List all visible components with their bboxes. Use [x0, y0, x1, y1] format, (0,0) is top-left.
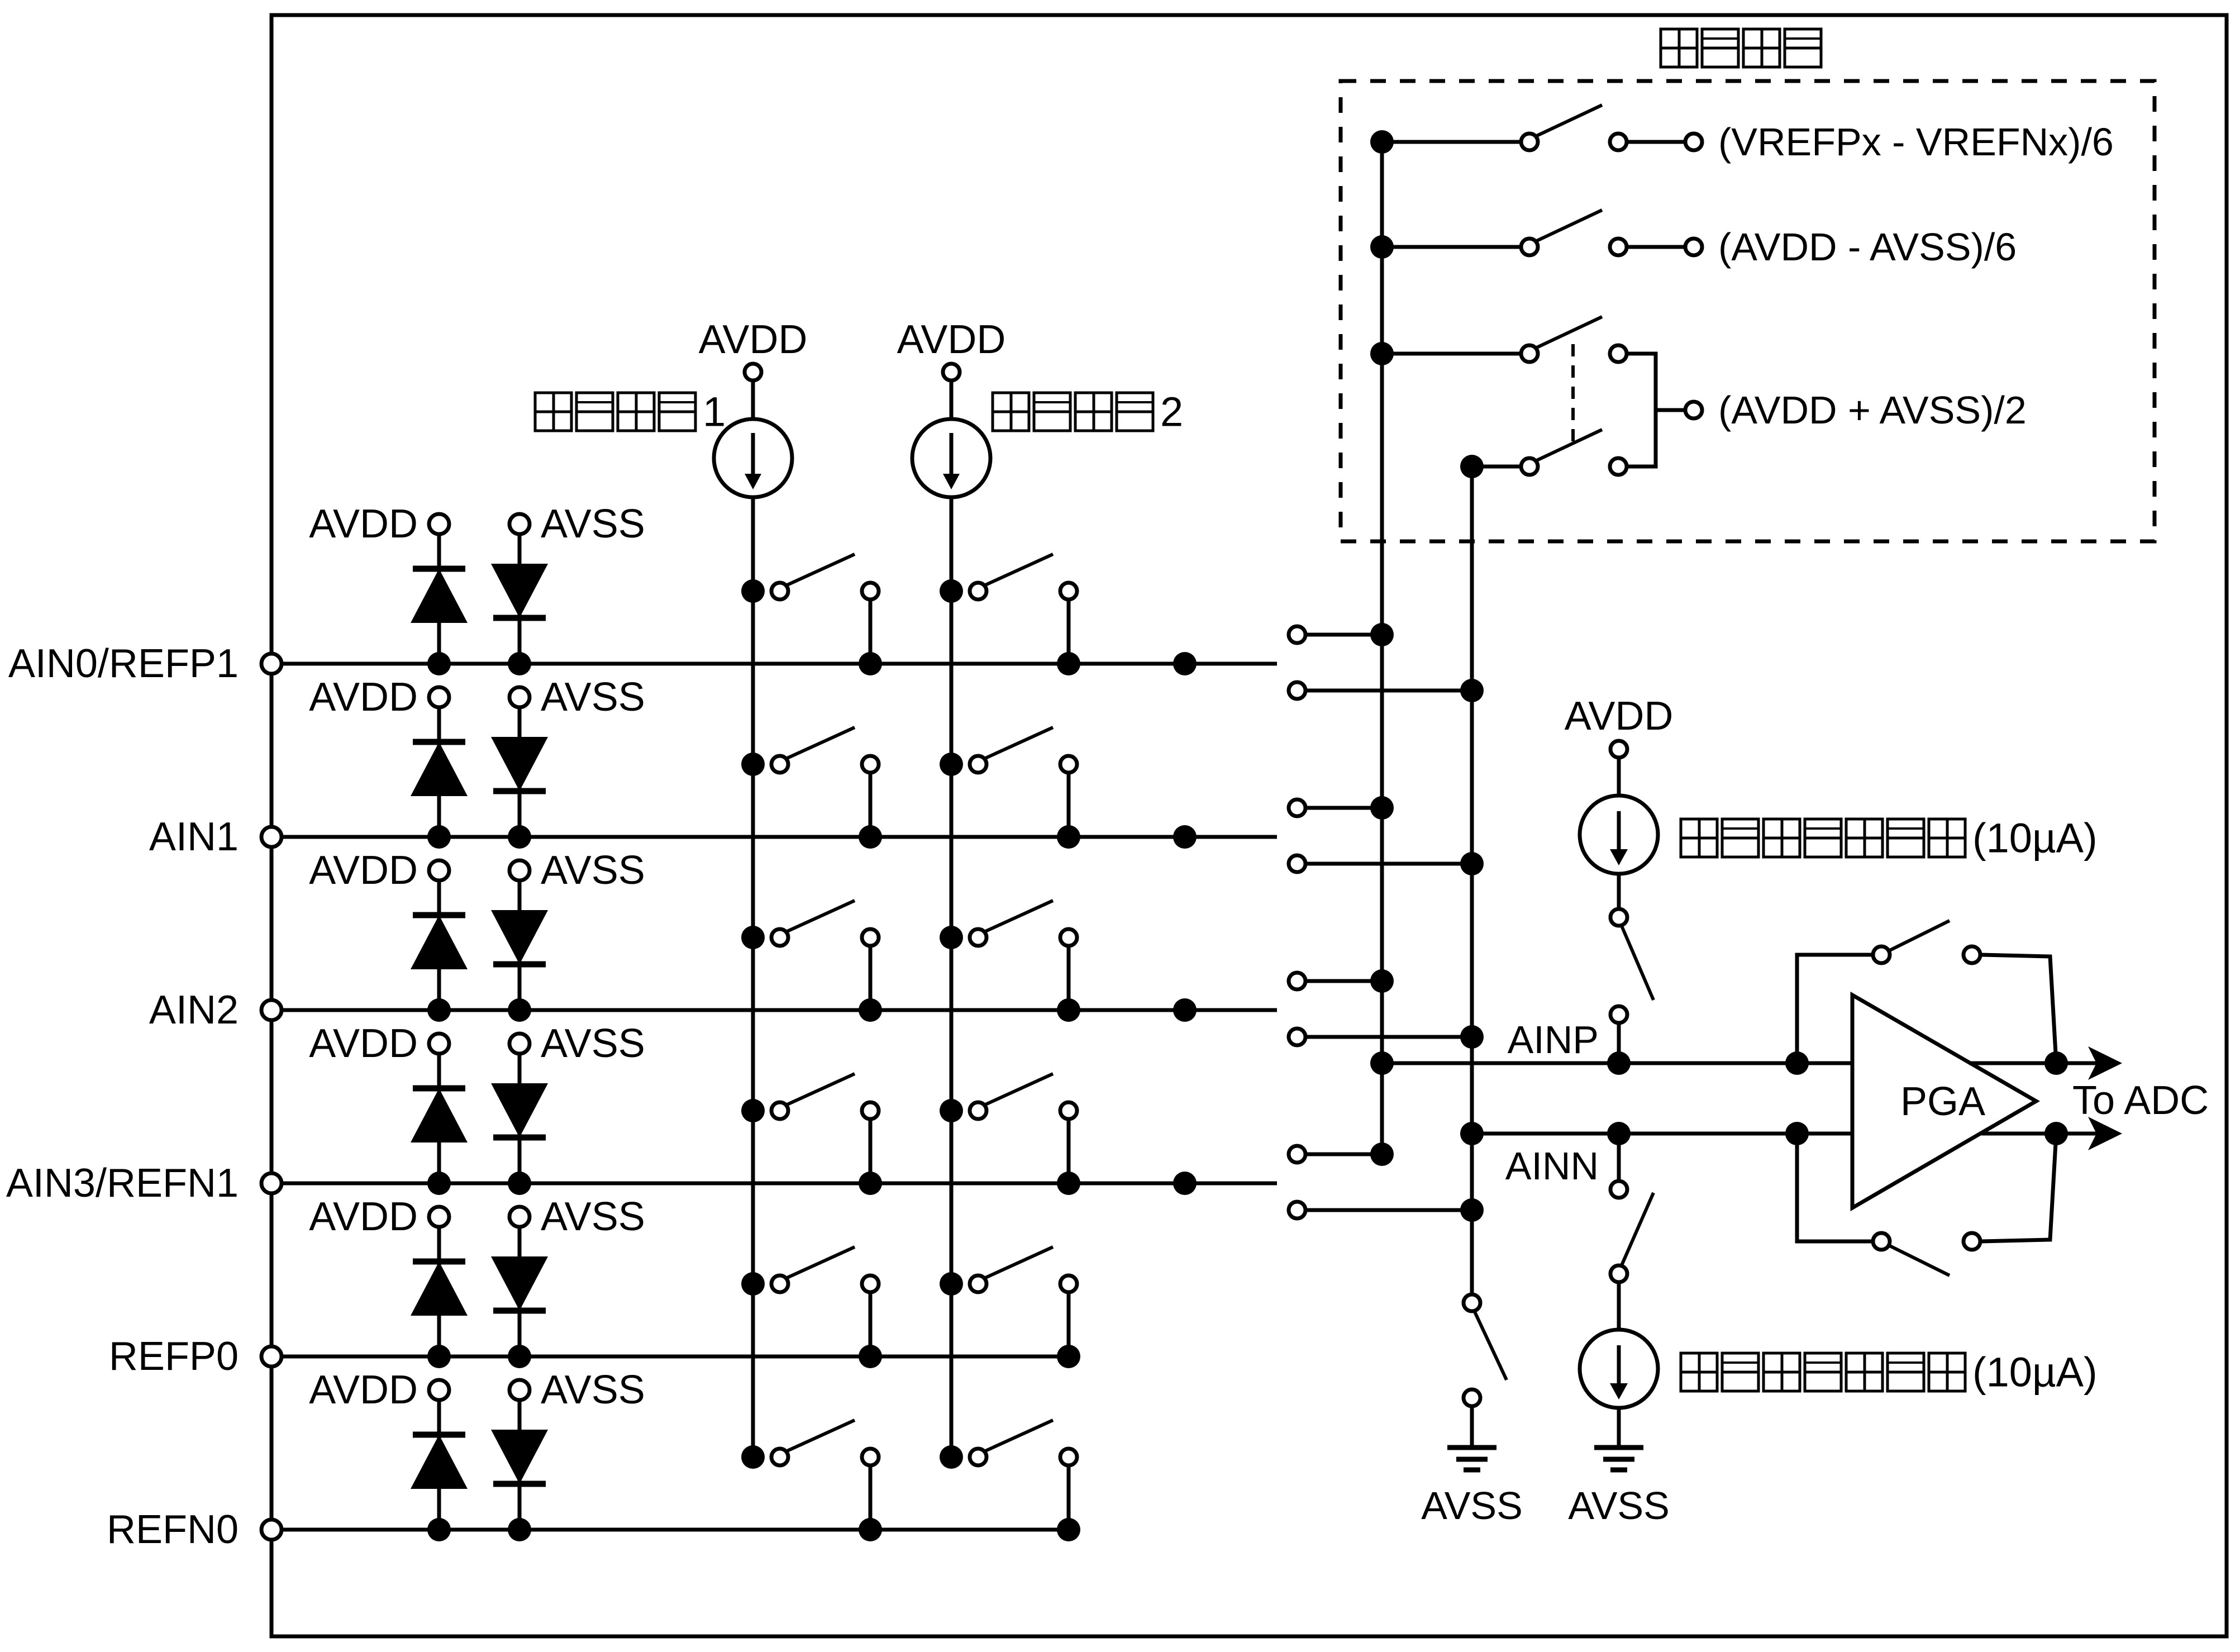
svg-text:(AVDD - AVSS)/6: (AVDD - AVSS)/6	[1718, 225, 2017, 269]
terminal AVDD (ESD AIN2)	[309, 848, 449, 893]
system monitor box (系统监测)	[1341, 81, 2155, 541]
node AIN0/REFP1/AVDD-diode junction	[427, 652, 451, 675]
switch AIN1 to AINP bus	[1289, 796, 1394, 820]
node AIN0/REFP1/AVSS-diode junction	[508, 652, 531, 675]
terminal AVDD (ESD REFP0)	[309, 1194, 449, 1239]
node REFP0/AVDD-diode junction	[427, 1345, 451, 1368]
wire IDAC1 switch drop to REFN0	[859, 1465, 882, 1541]
node AIN3/REFN1/AVSS-diode junction	[508, 1172, 531, 1195]
wire AIN3/REFN1 row	[271, 1182, 1277, 1186]
svg-text:AVDD: AVDD	[309, 502, 418, 546]
svg-text:AVDD: AVDD	[309, 675, 418, 720]
current source IDAC1	[714, 380, 792, 497]
svg-text:PGA: PGA	[1900, 1079, 1985, 1124]
ground AVSS (right)	[1568, 1448, 1670, 1527]
wire REFP0 row	[271, 1355, 1069, 1359]
current source sensor bias 2 (10uA)	[1580, 1282, 1658, 1448]
svg-text:AVDD: AVDD	[699, 317, 808, 362]
wire REFN0 row	[271, 1528, 1069, 1532]
svg-text:1: 1	[703, 389, 726, 435]
terminal AVSS (ESD AIN1)	[509, 675, 645, 720]
wire monitor (AVDD+AVSS)/2 join	[1626, 354, 1685, 466]
terminal AVDD (ESD AIN3/REFN1)	[309, 1021, 449, 1066]
ESD diode REFN0 to AVDD	[411, 1400, 468, 1530]
terminal AVDD (ESD AIN0/REFP1)	[309, 502, 449, 546]
wire IDAC2 switch drop to AIN0/REFP1	[1057, 599, 1080, 675]
ESD diode AIN3/REFN1 to AVSS	[491, 1054, 548, 1183]
wire AINN	[1460, 1122, 1852, 1145]
switch IDAC1 to AIN1	[741, 727, 879, 776]
terminal AVSS (ESD REFP0)	[509, 1194, 645, 1239]
label To ADC	[2072, 1078, 2209, 1123]
wire IDAC2 column	[950, 497, 954, 1457]
switch AIN2 to AINP bus	[1289, 969, 1394, 993]
switch IDAC1 to REFN0	[741, 1420, 879, 1469]
switch IDAC2 to AIN3/REFN1	[940, 1074, 1077, 1122]
switch IDAC1 to AIN2	[741, 901, 879, 949]
switch AIN3/REFN1 to AINP bus	[1289, 1142, 1394, 1166]
terminal AVSS (ESD AIN3/REFN1)	[509, 1021, 645, 1066]
label 传感器偏置电流 (10µA) upper	[1681, 815, 2098, 861]
ESD diode AIN0/REFP1 to AVDD	[411, 534, 468, 664]
terminal AVDD (IDAC1)	[699, 317, 808, 380]
wire IDAC2 switch drop to AIN3/REFN1	[1057, 1119, 1080, 1195]
switch bias 2 from AINN	[1607, 1122, 1653, 1282]
terminal (AVDD + AVSS)/2	[1685, 388, 2027, 432]
switch AIN0/REFP1 to AINP bus	[1289, 623, 1394, 646]
terminal AVDD (bias 1)	[1565, 694, 1674, 758]
ESD diode AIN2 to AVDD	[411, 880, 468, 1010]
switch AIN3/REFN1 to AINN bus	[1289, 1198, 1484, 1222]
node REFP0/AVSS-diode junction	[508, 1345, 531, 1368]
svg-text:2: 2	[1160, 389, 1183, 435]
ESD diode AIN1 to AVDD	[411, 707, 468, 837]
wire IDAC1 switch drop to REFP0	[859, 1292, 882, 1368]
wire IDAC2 switch drop to REFN0	[1057, 1465, 1080, 1541]
ESD diode REFP0 to AVSS	[491, 1227, 548, 1356]
svg-text:AIN2: AIN2	[149, 988, 239, 1032]
pin AIN3/REFN1	[6, 1161, 282, 1206]
terminal AVDD (ESD AIN1)	[309, 675, 449, 720]
current source IDAC2	[912, 380, 990, 497]
wire AINN bus (vertical)	[1470, 466, 1474, 1294]
switch chopper bottom	[1785, 1122, 2068, 1275]
terminal AVSS (ESD REFN0)	[509, 1368, 645, 1412]
wire AIN1 row	[271, 835, 1277, 839]
terminal AVSS (ESD AIN2)	[509, 848, 645, 893]
terminal AVSS (ESD AIN0/REFP1)	[509, 502, 645, 546]
node AIN1/AVDD-diode junction	[427, 825, 451, 849]
wire IDAC2 switch drop to REFP0	[1057, 1292, 1080, 1368]
svg-text:(VREFPx - VREFNx)/6: (VREFPx - VREFNx)/6	[1718, 120, 2114, 164]
wire IDAC1 column	[751, 497, 755, 1457]
node AIN2 mux pole	[1173, 998, 1197, 1022]
terminal (VREFPx - VREFNx)/6	[1626, 120, 2114, 164]
switch system monitor row 3	[1370, 317, 1627, 365]
svg-text:AIN1: AIN1	[149, 815, 239, 859]
gang line (dashed) monitor mid-supply switches	[1571, 344, 1575, 447]
svg-text:REFP0: REFP0	[109, 1334, 239, 1379]
terminal AVDD (IDAC2)	[897, 317, 1006, 380]
svg-text:AVDD: AVDD	[309, 1194, 418, 1239]
svg-text:AVSS: AVSS	[541, 1021, 645, 1066]
wire IDAC1 switch drop to AIN2	[859, 946, 882, 1022]
svg-text:(10µA): (10µA)	[1972, 815, 2098, 861]
switch IDAC2 to REFP0	[940, 1247, 1077, 1296]
ESD diode REFP0 to AVDD	[411, 1227, 468, 1356]
svg-text:AIN0/REFP1: AIN0/REFP1	[8, 641, 239, 686]
op-amp PGA	[1852, 995, 2036, 1208]
svg-text:AVDD: AVDD	[897, 317, 1006, 362]
ESD diode AIN3/REFN1 to AVDD	[411, 1054, 468, 1183]
svg-text:AVSS: AVSS	[541, 1368, 645, 1412]
svg-text:AINP: AINP	[1508, 1018, 1599, 1061]
svg-text:AVDD: AVDD	[1565, 694, 1674, 739]
switch system monitor row 2	[1370, 210, 1627, 259]
svg-text:AIN3/REFN1: AIN3/REFN1	[6, 1161, 239, 1206]
wire AIN2 row	[271, 1008, 1277, 1012]
ESD diode AIN1 to AVSS	[491, 707, 548, 837]
switch IDAC1 to AIN0/REFP1	[741, 554, 879, 603]
switch IDAC2 to REFN0	[940, 1420, 1077, 1469]
pin REFN0	[107, 1507, 282, 1552]
switch IDAC2 to AIN2	[940, 901, 1077, 949]
node REFN0/AVSS-diode junction	[508, 1518, 531, 1541]
wire AINP	[1370, 1051, 1852, 1075]
switch chopper top	[1785, 921, 2068, 1075]
svg-text:AVSS: AVSS	[1568, 1484, 1670, 1527]
label 系统监测 (system monitor title)	[1661, 29, 1822, 67]
node AIN3/REFN1/AVDD-diode junction	[427, 1172, 451, 1195]
wire IDAC2 switch drop to AIN2	[1057, 946, 1080, 1022]
node AIN2/AVSS-diode junction	[508, 998, 531, 1022]
switch AINN bus to AVSS	[1464, 1294, 1507, 1448]
wire PGA output positive (to ADC)	[1969, 1046, 2122, 1080]
switch AIN1 to AINN bus	[1289, 852, 1484, 875]
ESD diode AIN0/REFP1 to AVSS	[491, 534, 548, 664]
svg-text:AINN: AINN	[1505, 1144, 1599, 1188]
ESD diode AIN2 to AVSS	[491, 880, 548, 1010]
switch system monitor row 4	[1460, 430, 1627, 478]
pin REFP0	[109, 1334, 282, 1379]
node AIN0/REFP1 mux pole	[1173, 652, 1197, 675]
svg-text:AVSS: AVSS	[541, 675, 645, 720]
label excitation current 1 (激励电流1)	[535, 389, 726, 435]
ESD diode REFN0 to AVSS	[491, 1400, 548, 1530]
wire PGA output negative (to ADC)	[1981, 1117, 2122, 1150]
node AIN1/AVSS-diode junction	[508, 825, 531, 849]
pin AIN2	[149, 988, 282, 1032]
terminal (AVDD - AVSS)/6	[1626, 225, 2017, 269]
svg-text:(AVDD + AVSS)/2: (AVDD + AVSS)/2	[1718, 388, 2027, 432]
node AIN3/REFN1 mux pole	[1173, 1172, 1197, 1195]
ground AVSS (left)	[1421, 1448, 1523, 1527]
svg-text:AVSS: AVSS	[541, 1194, 645, 1239]
wire IDAC1 switch drop to AIN0/REFP1	[859, 599, 882, 675]
svg-text:AVSS: AVSS	[541, 502, 645, 546]
label 传感器偏置电流 (10µA) lower	[1681, 1349, 2098, 1396]
label AINP	[1508, 1018, 1599, 1061]
svg-text:REFN0: REFN0	[107, 1507, 239, 1552]
switch IDAC2 to AIN0/REFP1	[940, 554, 1077, 603]
pin AIN1	[149, 815, 282, 859]
wire IDAC1 switch drop to AIN1	[859, 773, 882, 849]
switch system monitor row 1	[1370, 105, 1627, 154]
switch IDAC2 to AIN1	[940, 727, 1077, 776]
switch IDAC1 to AIN3/REFN1	[741, 1074, 879, 1122]
label AINN	[1505, 1144, 1599, 1188]
svg-text:AVDD: AVDD	[309, 1021, 418, 1066]
current source sensor bias 1 (10uA)	[1580, 758, 1658, 874]
wire AINP bus (vertical)	[1380, 142, 1384, 1154]
svg-text:AVSS: AVSS	[541, 848, 645, 893]
switch IDAC1 to REFP0	[741, 1247, 879, 1296]
svg-text:To ADC: To ADC	[2072, 1078, 2209, 1123]
switch AIN0/REFP1 to AINN bus	[1289, 679, 1484, 702]
node AIN2/AVDD-diode junction	[427, 998, 451, 1022]
terminal AVDD (ESD REFN0)	[309, 1368, 449, 1412]
node REFN0/AVDD-diode junction	[427, 1518, 451, 1541]
switch AIN2 to AINN bus	[1289, 1025, 1484, 1049]
svg-text:AVDD: AVDD	[309, 848, 418, 893]
svg-text:(10µA): (10µA)	[1972, 1349, 2098, 1396]
svg-text:AVDD: AVDD	[309, 1368, 418, 1412]
wire IDAC2 switch drop to AIN1	[1057, 773, 1080, 849]
node AIN1 mux pole	[1173, 825, 1197, 849]
wire IDAC1 switch drop to AIN3/REFN1	[859, 1119, 882, 1195]
label excitation current 2 (激励电流2)	[993, 389, 1183, 435]
pin AIN0/REFP1	[8, 641, 282, 686]
switch bias 1 to AINP	[1607, 874, 1653, 1075]
svg-text:AVSS: AVSS	[1421, 1484, 1523, 1527]
wire AIN0/REFP1 row	[271, 662, 1277, 666]
